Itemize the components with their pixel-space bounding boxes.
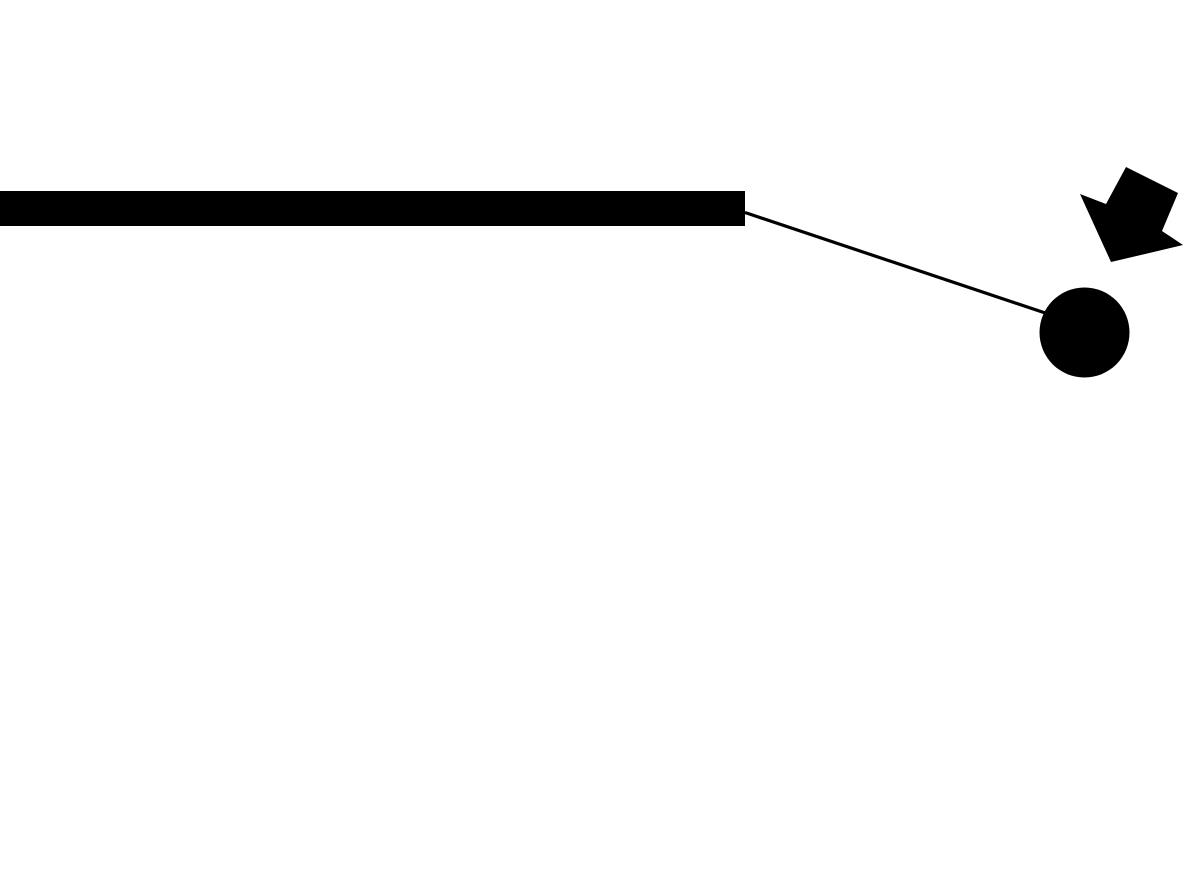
block arrow pointing at bob	[1080, 167, 1183, 262]
ceiling bar	[0, 191, 745, 226]
pendulum bob	[1040, 288, 1130, 378]
wire (pendulum string)	[745, 213, 1084, 327]
